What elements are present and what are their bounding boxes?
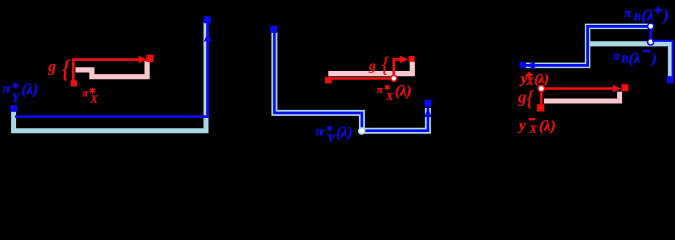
red contour: [73, 60, 140, 81]
minus sign of lambda-: [643, 50, 650, 53]
svg-text:Y: Y: [327, 131, 336, 142]
red arrowhead right: [400, 56, 408, 64]
branch square top left: [270, 26, 277, 33]
circle marker B: [648, 39, 654, 45]
svg-text:g: g: [47, 59, 56, 76]
branch point square (bottom left): [10, 105, 17, 112]
line A contour (blue): [526, 26, 651, 65]
svg-text:π: π: [377, 84, 384, 96]
label pi*_Y(lambda): [2, 82, 38, 106]
red square (top right): [146, 55, 153, 62]
red contour: [331, 59, 400, 78]
plus sign of lambda+: [654, 7, 661, 14]
red arrowhead right: [613, 85, 621, 93]
svg-text:g: g: [368, 59, 376, 74]
pale cut B: [590, 44, 671, 76]
white circle marker: [359, 128, 365, 134]
pink cut: [544, 92, 620, 101]
svg-text:X: X: [89, 93, 98, 105]
red square RS1: [537, 104, 544, 111]
red square (bottom): [71, 80, 77, 86]
plus sign of y+: [526, 72, 533, 78]
svg-text:(λ): (λ): [22, 82, 39, 98]
branch square right: [424, 100, 431, 107]
red square top right: [409, 56, 415, 62]
label pi*_Y(lambda) blue: [315, 125, 353, 146]
asterisk of pi*_Y: [13, 82, 19, 88]
svg-text:X: X: [526, 76, 534, 87]
svg-text:(λ): (λ): [539, 118, 556, 134]
pink cut of X curve: [76, 61, 148, 77]
label y+_X(lambda): [519, 71, 549, 87]
svg-text:Y: Y: [12, 90, 21, 105]
red ring marker: [538, 85, 544, 91]
svg-text:X: X: [385, 91, 394, 103]
arrowhead up: [424, 108, 432, 117]
contour (blue core): [274, 32, 428, 131]
cut underlay (lightblue) along contour: [274, 32, 428, 131]
svg-text:B: B: [620, 54, 628, 66]
circle marker A: [648, 23, 654, 29]
contour (blue) along the cut: [15, 22, 208, 117]
red square left: [325, 77, 332, 84]
pink cut: [328, 62, 412, 74]
svg-text:(λ): (λ): [336, 125, 353, 141]
branch point square (top right): [204, 16, 211, 23]
label pi_B(lambda+): [624, 5, 669, 24]
label pi*_X(lambda) red: [377, 83, 412, 103]
svg-text:π: π: [315, 125, 325, 139]
blue contour B: [652, 41, 673, 76]
connector between circles: [649, 27, 652, 41]
svg-text:B: B: [632, 11, 640, 23]
label pi*_X: [82, 88, 98, 106]
red contour: [545, 87, 613, 90]
asterisk of middle pi*_X: [385, 84, 390, 90]
svg-text:(λ): (λ): [395, 83, 412, 99]
line A underlay (lightblue): [526, 26, 651, 65]
svg-text:π: π: [82, 88, 89, 100]
blue square B1: [667, 76, 674, 83]
blue arrowhead left: [526, 62, 535, 70]
asterisk of middle pi*_Y: [327, 125, 332, 131]
svg-text:y: y: [517, 118, 526, 134]
svg-text:g: g: [517, 87, 527, 106]
red arrowhead right: [139, 56, 148, 64]
svg-text:(λ): (λ): [534, 71, 548, 86]
svg-text:X: X: [529, 123, 538, 135]
red vertical to square: [540, 92, 542, 105]
red square RS2: [621, 84, 628, 91]
blue square A1: [520, 62, 526, 68]
svg-text:π: π: [2, 82, 12, 96]
svg-text:π: π: [624, 5, 632, 20]
minus sign of y-: [529, 118, 535, 120]
svg-text:): ): [650, 51, 657, 67]
asterisk of pi*_X: [90, 88, 95, 94]
red ring marker: [391, 75, 397, 81]
cut (lightblue) of Y curve: [14, 21, 206, 131]
svg-text:π: π: [613, 48, 621, 63]
svg-text:(λ: (λ: [629, 51, 641, 67]
svg-text:): ): [662, 7, 669, 24]
arrowhead up on blue contour: [204, 33, 212, 41]
label pi_B(lambda-): [613, 48, 657, 67]
svg-text:(λ: (λ: [642, 7, 654, 24]
label y-_X(lambda): [517, 118, 556, 135]
